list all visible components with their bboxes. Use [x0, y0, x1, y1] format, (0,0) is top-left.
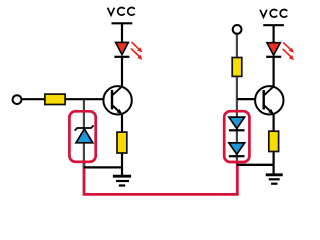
- wire (left bottom junction to ground wire): [84, 166, 122, 168]
- input terminal (left): [13, 95, 22, 104]
- highlight box around zener: [69, 111, 95, 162]
- red connector between highlight boxes: [84, 161, 237, 195]
- wire (left emitter to resistor R2): [121, 114, 123, 133]
- wire (left base wire, terminal to transistor): [21, 98, 104, 100]
- wire (right input branch, vertical gray): [236, 34, 238, 165]
- resistor R1 (left base, horizontal): [45, 94, 65, 104]
- wire (right LED to transistor collector): [273, 57, 275, 86]
- wire (right R4 to ground): [273, 151, 275, 175]
- wire (right emitter to resistor R4): [273, 114, 275, 132]
- wire (right base wire, junction to transistor): [237, 98, 256, 100]
- VCC label (right): [260, 9, 287, 17]
- diode D3 (lower): [229, 143, 245, 156]
- transistor Q2: [255, 86, 283, 114]
- ground (right): [266, 175, 283, 184]
- wire (left R2 to ground): [121, 153, 123, 177]
- LED D4 (right): [266, 43, 281, 57]
- transistor Q1: [103, 86, 131, 114]
- wire (right VCC bar to LED): [273, 25, 275, 43]
- wire (left zener branch, vertical gray): [83, 99, 85, 167]
- resistor R3 (right input, vertical): [232, 58, 242, 77]
- ground (left): [113, 176, 131, 185]
- LED D1 (left): [114, 42, 129, 56]
- diode D2 (upper): [229, 117, 245, 130]
- VCC label (left): [108, 7, 135, 15]
- wire (left LED to transistor collector): [121, 57, 123, 86]
- wire (right bottom junction to ground wire): [237, 164, 274, 166]
- input terminal (right): [233, 25, 242, 34]
- resistor R4 (right emitter, vertical): [269, 131, 279, 151]
- wire (left VCC bar to LED): [121, 23, 123, 43]
- LED D4 light arrows: [283, 42, 294, 60]
- zener diode ZD1: [75, 125, 94, 142]
- VCC power bar (right): [263, 24, 284, 26]
- LED D1 light arrows: [131, 42, 142, 60]
- resistor R2 (left emitter, vertical): [117, 132, 127, 153]
- VCC power bar (left): [112, 22, 133, 24]
- highlight box around diodes: [224, 111, 249, 162]
